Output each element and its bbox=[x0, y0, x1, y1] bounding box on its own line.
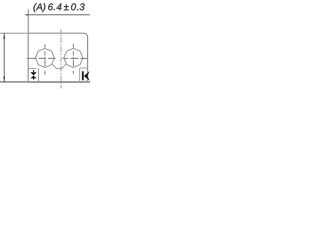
dimension text (A)6.4±0.3 bbox=[33, 3, 84, 12]
right crosshair horizontal bbox=[63, 57, 88, 59]
ledge line left bbox=[28, 67, 36, 69]
extension line A bbox=[27, 9, 29, 33]
dimension line B (vertical) bbox=[3, 33, 5, 82]
extension line left-top bbox=[0, 32, 28, 34]
ledge line right bbox=[80, 67, 88, 69]
arrowhead B top bbox=[3, 34, 5, 39]
direction symbol right (dart arrow) bbox=[82, 71, 90, 81]
center line (dash-dot) bbox=[60, 29, 62, 88]
left crosshair horizontal bbox=[27, 57, 56, 59]
left boss octagon bbox=[35, 48, 54, 67]
polarity symbol left (double arrow) bbox=[30, 70, 36, 80]
housing outline bbox=[28, 33, 87, 82]
right crosshair vertical bbox=[72, 44, 74, 74]
dimension line A bbox=[28, 14, 90, 16]
key slot wall left bbox=[38, 68, 40, 82]
key slot wall right bbox=[79, 68, 81, 82]
right boss octagon bbox=[64, 48, 83, 67]
arrowhead A bbox=[24, 14, 28, 16]
arrowhead B bottom bbox=[3, 77, 5, 82]
waist contour middle bbox=[52, 64, 66, 69]
bottom surface line bbox=[0, 81, 90, 83]
left crosshair vertical bbox=[44, 44, 46, 75]
